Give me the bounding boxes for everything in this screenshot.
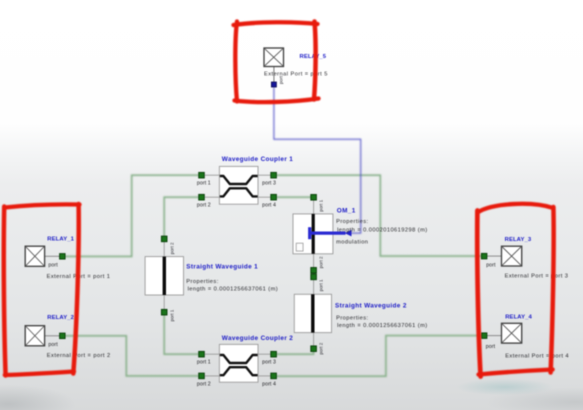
svg-text:port 4: port 4 — [262, 203, 276, 209]
port SW1 port 2 (green square, top) — [161, 236, 167, 242]
svg-text:port 1: port 1 — [319, 279, 324, 291]
label Straight Waveguide 1 — [186, 264, 258, 271]
svg-text:port 4: port 4 — [262, 382, 276, 388]
red marker annotation around RELAY_3 and RELAY_4 — [477, 204, 553, 377]
wire Waveguide Coupler 2 port 4 to RELAY_4 — [276, 336, 481, 377]
label OM_1 port 1 (rotated) — [319, 199, 324, 211]
pin OM_1 modulation arrow — [345, 230, 352, 237]
svg-text:RELAY_5: RELAY_5 — [300, 54, 327, 60]
port SW2 port 2 (green square, bottom) — [311, 346, 317, 352]
port RELAY_2 port (green square) — [60, 333, 66, 339]
port WC1 port 4 (green square) — [271, 194, 277, 200]
svg-text:port: port — [486, 263, 496, 269]
svg-text:modulation: modulation — [336, 240, 368, 246]
svg-text:port 1: port 1 — [197, 360, 211, 366]
label WC1 port 4 — [262, 203, 276, 209]
port WC2 port 4 (green square) — [271, 373, 277, 379]
label WC2 port 3 — [262, 360, 276, 366]
port WC2 port 3 (green square) — [271, 351, 277, 357]
label OM_1 modulation — [336, 240, 368, 246]
port OM_1 port 2 (green square, bottom) — [311, 268, 317, 274]
port WC1 port 1 (green square) — [199, 172, 205, 178]
label RELAY_3 External Port = port 3 — [505, 273, 569, 279]
label RELAY_4 External Port = port 4 — [505, 353, 569, 359]
wire Waveguide Coupler 1 port 4 to OM_1 port 1 — [276, 196, 313, 198]
port RELAY_3 port (green square) — [481, 253, 487, 259]
port WC1 port 3 (green square) — [271, 172, 277, 178]
label RELAY_2 — [47, 315, 74, 321]
svg-text:External Port = port 3: External Port = port 3 — [505, 273, 569, 279]
label OM_1 length value — [337, 228, 428, 234]
label OM_1 — [337, 207, 356, 214]
port WC2 port 2 (green square) — [199, 373, 205, 379]
svg-text:length = 0.0002010619298 (m): length = 0.0002010619298 (m) — [337, 228, 428, 234]
label Waveguide Coupler 1 — [222, 156, 293, 163]
label WC1 port 3 — [262, 181, 276, 187]
waveguide coupler WC1 box — [205, 166, 271, 204]
svg-text:External Port = port 5: External Port = port 5 — [264, 72, 328, 78]
label SW1 Properties: — [186, 279, 218, 285]
port RELAY_5 port (blue square) — [271, 82, 276, 87]
label WC1 port 2 — [197, 203, 211, 209]
svg-text:Straight Waveguide 1: Straight Waveguide 1 — [186, 264, 258, 271]
label RELAY_4 — [505, 315, 532, 321]
label WC2 port 2 — [197, 382, 211, 388]
label RELAY_2 External Port = port 2 — [47, 353, 111, 359]
waveguide coupler WC2 box — [205, 344, 271, 382]
label RELAY_4 port — [486, 344, 496, 350]
label Waveguide Coupler 2 — [222, 335, 293, 342]
label WC1 port 1 — [197, 181, 211, 187]
label RELAY_1 External Port = port 1 — [47, 274, 111, 280]
svg-text:port: port — [48, 342, 58, 348]
port WC2 port 1 (green square) — [199, 351, 205, 357]
svg-text:port 2: port 2 — [169, 242, 174, 254]
straight waveguide SW1 box — [145, 242, 183, 310]
label SW1 port 2 (rotated) — [169, 242, 174, 254]
label SW1 port 1 (rotated) — [169, 309, 174, 321]
label RELAY_1 — [47, 237, 74, 243]
svg-text:External Port = port 2: External Port = port 2 — [47, 353, 111, 359]
wire RELAY_2 to Waveguide Coupler 2 port 2 — [65, 336, 199, 376]
svg-text:length = 0.0001256637061 (m): length = 0.0001256637061 (m) — [337, 323, 428, 329]
svg-text:External Port = port 4: External Port = port 4 — [505, 353, 569, 359]
svg-text:port 2: port 2 — [197, 382, 211, 388]
straight waveguide SW2 box — [294, 280, 331, 346]
svg-text:port: port — [486, 344, 496, 350]
port RELAY_1 port (green square) — [60, 254, 66, 260]
svg-text:RELAY_3: RELAY_3 — [505, 237, 532, 243]
label RELAY_5 External Port = port 5 — [264, 72, 328, 78]
svg-text:OM_1: OM_1 — [337, 207, 356, 214]
port SW2 port 1 (green square, top) — [311, 274, 317, 280]
relay RELAY_1 — [25, 246, 59, 266]
label OM_1 Properties: — [336, 219, 368, 225]
optical modulator OM_1 box — [293, 200, 346, 267]
wire Waveguide Coupler 1 port 2 to Straight Waveguide 1 port 2 — [164, 197, 199, 239]
label RELAY_3 — [505, 237, 532, 243]
svg-text:port 3: port 3 — [262, 360, 276, 366]
port WC1 port 2 (green square) — [199, 194, 205, 200]
svg-text:port 1: port 1 — [169, 309, 174, 321]
label OM_1 port 2 (rotated) — [319, 256, 324, 268]
port RELAY_4 port (green square) — [481, 333, 487, 339]
svg-text:port: port — [48, 262, 58, 268]
label Straight Waveguide 2 — [335, 302, 407, 309]
wire Waveguide Coupler 1 port 3 to RELAY_3 — [276, 175, 481, 256]
relay RELAY_3 — [487, 246, 522, 266]
red marker annotation around RELAY_1 and RELAY_2 — [4, 204, 80, 376]
svg-text:length = 0.0001256637061 (m): length = 0.0001256637061 (m) — [188, 287, 279, 293]
svg-text:RELAY_4: RELAY_4 — [505, 315, 532, 321]
label SW2 Properties: — [336, 315, 368, 321]
label SW2 port 2 (rotated) — [319, 342, 324, 354]
port OM_1 port 1 (green square, top) — [311, 195, 317, 201]
svg-text:port 1: port 1 — [319, 199, 324, 211]
wire RELAY_5 to OM_1 modulation input (blue) — [274, 87, 361, 233]
label SW2 port 1 (rotated) — [319, 279, 324, 291]
svg-text:port 1: port 1 — [197, 181, 211, 187]
label WC2 port 4 — [262, 382, 276, 388]
port SW1 port 1 (green square, bottom) — [161, 309, 167, 315]
wire Straight Waveguide 2 port 2 to Waveguide Coupler 2 port 3 — [276, 349, 313, 355]
wire OM_1 port 2 to Straight Waveguide 2 port 1 — [313, 270, 315, 277]
svg-text:port 2: port 2 — [319, 256, 324, 268]
relay RELAY_4 — [487, 323, 522, 343]
relay RELAY_5 — [264, 48, 284, 82]
label RELAY_5 — [300, 54, 327, 60]
wire RELAY_1 to Waveguide Coupler 1 port 1 — [65, 175, 199, 256]
svg-text:Waveguide Coupler 1: Waveguide Coupler 1 — [222, 156, 293, 163]
label SW2 length value — [337, 323, 428, 329]
label RELAY_2 port — [48, 342, 58, 348]
svg-text:RELAY_2: RELAY_2 — [47, 315, 74, 321]
label RELAY_1 port — [48, 262, 58, 268]
label SW1 length value — [188, 287, 279, 293]
svg-text:Properties:: Properties: — [336, 219, 368, 225]
label RELAY_3 port — [486, 263, 496, 269]
svg-text:Properties:: Properties: — [336, 315, 368, 321]
label RELAY_5 port (rotated) — [278, 75, 283, 84]
red marker annotation around RELAY_5 — [234, 22, 319, 103]
svg-text:port 2: port 2 — [319, 342, 324, 354]
svg-text:Straight Waveguide 2: Straight Waveguide 2 — [335, 302, 407, 309]
svg-text:Waveguide Coupler 2: Waveguide Coupler 2 — [222, 335, 293, 342]
svg-text:port 2: port 2 — [197, 203, 211, 209]
svg-text:Properties:: Properties: — [186, 279, 218, 285]
wire Straight Waveguide 1 port 1 to Waveguide Coupler 2 port 1 — [164, 312, 199, 354]
svg-text:RELAY_1: RELAY_1 — [47, 237, 74, 243]
relay RELAY_2 — [25, 326, 59, 346]
svg-text:port 3: port 3 — [262, 181, 276, 187]
label WC2 port 1 — [197, 360, 211, 366]
